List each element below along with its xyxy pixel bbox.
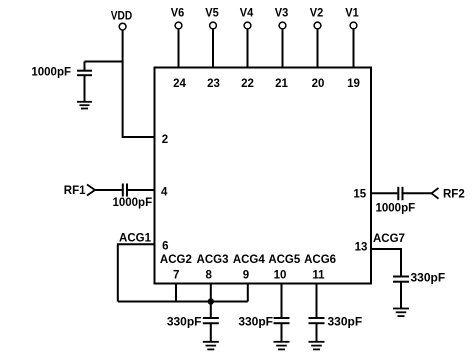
capacitor C1 1000pF bbox=[77, 62, 92, 102]
wire VDD to pin 2 bbox=[123, 30, 155, 137]
ground (C3) bbox=[203, 342, 219, 350]
wire C2 to pin 4 bbox=[128, 189, 155, 191]
connector RF2 bbox=[432, 188, 439, 199]
svg-text:15: 15 bbox=[353, 189, 366, 201]
terminal VDD bbox=[119, 23, 126, 30]
svg-text:RF2: RF2 bbox=[443, 189, 465, 201]
wire V6 to pin 24 bbox=[178, 29, 180, 67]
svg-text:V3: V3 bbox=[275, 6, 289, 20]
wire pin 15 to C6 bbox=[371, 192, 397, 194]
svg-text:13: 13 bbox=[355, 241, 368, 253]
svg-text:9: 9 bbox=[243, 270, 249, 282]
svg-text:330pF: 330pF bbox=[238, 315, 273, 329]
IC U1 bbox=[155, 68, 372, 284]
capacitor C7 330pF bbox=[393, 277, 409, 309]
svg-text:330pF: 330pF bbox=[167, 315, 202, 329]
svg-text:1000pF: 1000pF bbox=[112, 197, 152, 209]
terminal V6 bbox=[175, 22, 182, 29]
wire pin 11 down bbox=[316, 284, 318, 318]
capacitor C6 1000pF bbox=[398, 187, 402, 200]
wire pin 9 down bbox=[247, 284, 249, 302]
wire V1 to pin 19 bbox=[353, 29, 355, 67]
connector RF1 bbox=[87, 185, 95, 196]
wire V2 to pin 20 bbox=[317, 29, 319, 67]
svg-text:ACG6: ACG6 bbox=[304, 254, 336, 266]
svg-text:V2: V2 bbox=[310, 6, 324, 20]
wire C6 to RF2 bbox=[404, 192, 432, 194]
terminal V4 bbox=[244, 22, 251, 29]
svg-text:7: 7 bbox=[173, 270, 179, 282]
wire V4 to pin 22 bbox=[247, 29, 249, 67]
svg-text:11: 11 bbox=[312, 270, 325, 282]
ground (C5) bbox=[309, 342, 325, 350]
ground (C7) bbox=[393, 309, 409, 317]
svg-text:V4: V4 bbox=[240, 6, 254, 20]
svg-text:22: 22 bbox=[241, 78, 254, 90]
svg-text:10: 10 bbox=[274, 270, 287, 282]
svg-text:23: 23 bbox=[207, 78, 220, 90]
svg-text:24: 24 bbox=[173, 78, 186, 90]
svg-text:RF1: RF1 bbox=[64, 185, 86, 197]
svg-text:20: 20 bbox=[312, 78, 325, 90]
svg-text:330pF: 330pF bbox=[411, 271, 446, 285]
svg-text:V1: V1 bbox=[345, 6, 359, 20]
terminal V1 bbox=[350, 22, 357, 29]
wire ACG1 to pin 6 bbox=[118, 244, 155, 301]
svg-text:19: 19 bbox=[347, 78, 360, 90]
wire V3 to pin 21 bbox=[282, 29, 284, 67]
svg-text:1000pF: 1000pF bbox=[376, 202, 416, 214]
capacitor C5 330pF bbox=[309, 318, 325, 342]
wire bottom net bbox=[118, 301, 248, 303]
capacitor C2 1000pF bbox=[123, 184, 127, 197]
terminal V3 bbox=[279, 22, 286, 29]
svg-text:V6: V6 bbox=[171, 6, 185, 20]
terminal V5 bbox=[210, 22, 217, 29]
terminal V2 bbox=[314, 22, 321, 29]
svg-text:V5: V5 bbox=[205, 6, 219, 20]
capacitor C3 330pF bbox=[203, 318, 219, 342]
wire pin 10 down bbox=[281, 284, 283, 318]
wire RF1 to C2 bbox=[95, 189, 122, 191]
svg-text:330pF: 330pF bbox=[328, 315, 363, 329]
svg-text:ACG4: ACG4 bbox=[233, 254, 266, 266]
svg-text:ACG2: ACG2 bbox=[160, 254, 192, 266]
svg-text:21: 21 bbox=[275, 78, 288, 90]
wire pin 13 ACG7 bbox=[371, 249, 401, 277]
svg-text:6: 6 bbox=[162, 240, 168, 252]
node junction pin 8 bbox=[208, 298, 214, 304]
svg-text:ACG7: ACG7 bbox=[373, 233, 405, 245]
wire VDD to C1 bbox=[85, 61, 123, 63]
wire pin 7 down bbox=[175, 284, 177, 302]
svg-text:ACG3: ACG3 bbox=[197, 254, 229, 266]
wire V5 to pin 23 bbox=[212, 29, 214, 67]
svg-text:ACG1: ACG1 bbox=[119, 233, 152, 245]
ground (C4) bbox=[274, 342, 290, 350]
svg-text:2: 2 bbox=[162, 134, 168, 146]
svg-text:4: 4 bbox=[161, 187, 168, 199]
svg-text:VDD: VDD bbox=[111, 11, 133, 23]
svg-text:ACG5: ACG5 bbox=[268, 254, 301, 266]
svg-text:8: 8 bbox=[205, 270, 212, 282]
wire pin 8 down bbox=[210, 284, 212, 318]
capacitor C4 330pF bbox=[274, 318, 290, 342]
ground (C1) bbox=[77, 102, 92, 109]
svg-text:1000pF: 1000pF bbox=[31, 67, 71, 79]
